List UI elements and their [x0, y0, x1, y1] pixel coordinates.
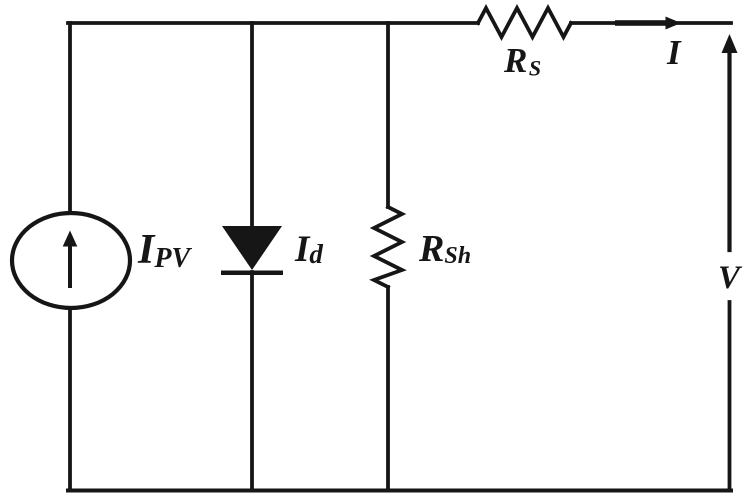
wire left branch upper (top node to current source)	[68, 23, 72, 212]
wire left branch lower (current source to bottom node)	[68, 309, 72, 490]
voltage V arrow head (pointing up)	[722, 34, 738, 53]
wire right branch upper (V arrow shaft)	[727, 50, 731, 250]
svg-text:V: V	[718, 260, 743, 296]
current source IPV circle	[12, 213, 130, 308]
diode D1 triangle (anode)	[222, 226, 282, 270]
diode D1 cathode bar	[221, 271, 283, 276]
current source arrow shaft	[68, 243, 72, 288]
current source arrow head	[63, 231, 78, 247]
current I arrow head	[666, 17, 682, 30]
current I arrow shaft (thick overlay on top wire)	[615, 20, 668, 26]
wire shunt branch upper	[386, 23, 390, 207]
svg-text:IPV: IPV	[137, 227, 192, 274]
wire Rs to top-right corner	[571, 21, 731, 25]
wire diode branch upper	[250, 23, 254, 228]
wire top-left segment (node N1 to Rs)	[68, 21, 478, 25]
wire bottom node	[68, 489, 731, 493]
svg-text:RSh: RSh	[418, 228, 471, 270]
wire right branch lower (below V label)	[728, 302, 732, 490]
resistor RSh (shunt) zigzag	[374, 207, 402, 287]
resistor RS (series) zigzag	[478, 8, 571, 37]
svg-text:I: I	[666, 33, 682, 72]
svg-text:Id: Id	[294, 229, 323, 270]
wire diode branch lower	[250, 272, 254, 490]
svg-text:RS: RS	[503, 41, 541, 81]
wire shunt branch lower	[386, 287, 390, 490]
